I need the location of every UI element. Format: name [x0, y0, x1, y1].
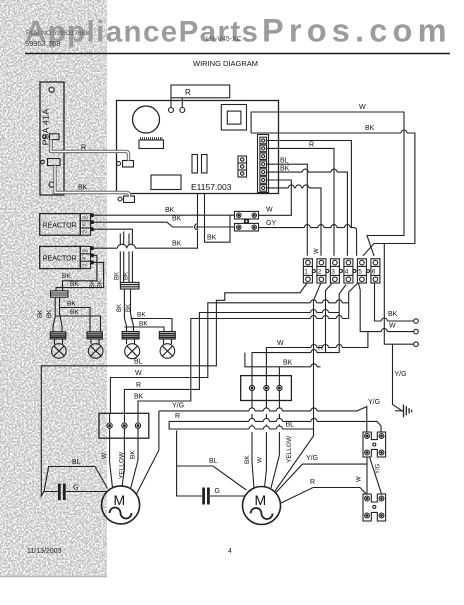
wire R into box2 pin1 from terminal 3 [252, 284, 332, 386]
relay block 2 [363, 493, 386, 521]
board right connector column [258, 135, 269, 193]
hops on W wire [311, 345, 342, 348]
svg-text:BK: BK [47, 310, 53, 318]
hops on BK staircase [311, 316, 343, 319]
hops on R wire [249, 418, 317, 421]
svg-text:Y/G: Y/G [172, 403, 184, 410]
wire T6 down to BK terminal [375, 283, 414, 321]
svg-text:BK: BK [98, 280, 104, 288]
capacitor motor2 [189, 488, 245, 505]
wire BK board bottom connector to hblock riser [205, 194, 231, 243]
hop on R wire [311, 350, 317, 353]
ribbon wire BK from PSA to board [55, 166, 130, 198]
wire BK reactor1 pin2 stepped [93, 222, 234, 227]
connector box 3pin motor2 [241, 376, 292, 401]
vertical B from T4 right [349, 283, 358, 318]
board buzzer circle [133, 106, 160, 133]
svg-text:YELLOW: YELLOW [119, 451, 126, 479]
svg-text:BK: BK [207, 235, 217, 242]
wire bar to lamp2 socket right [55, 316, 100, 332]
svg-text:WIRING DIAGRAM: WIRING DIAGRAM [193, 59, 258, 68]
board left connector 2 [118, 196, 135, 203]
wire BK reactor1 pin1 to connector block [93, 214, 234, 216]
wire GY from h-block across with hops [259, 228, 357, 256]
svg-text:BK: BK [124, 272, 130, 280]
wire BL motor1 [44, 467, 108, 492]
svg-text:5: 5 [358, 269, 362, 276]
staircase wire R to motor1 [124, 313, 339, 414]
wire from column box1 to terminal 4 [267, 141, 352, 228]
terminal circle YG [414, 342, 419, 347]
board capacitor bars [192, 155, 198, 174]
svg-text:G: G [73, 485, 78, 492]
svg-text:GN: GN [82, 215, 88, 220]
hop on box5 wire [302, 169, 337, 172]
wire bar to lamp2 socket left [60, 308, 91, 333]
header rule [25, 53, 450, 55]
svg-text:R: R [175, 413, 180, 420]
svg-text:W: W [82, 256, 86, 261]
staircase wire W to motor1 [110, 303, 348, 414]
svg-text:M: M [114, 492, 126, 508]
svg-text:G: G [215, 488, 220, 495]
svg-text:W: W [314, 248, 320, 254]
ground symbol [395, 405, 412, 418]
terminal circle BK [414, 319, 419, 324]
resistor box R on top of board [169, 85, 230, 113]
motor M2 [243, 487, 281, 525]
wire bar to lamp4 socket right [131, 319, 173, 332]
svg-text:BK: BK [139, 321, 148, 328]
reactor1 pin labels [82, 215, 88, 234]
svg-text:YELLOW: YELLOW [286, 435, 293, 463]
svg-text:BK: BK [62, 273, 71, 280]
wire pair line a [119, 234, 121, 283]
wire R from motor2 to relay2 [280, 488, 366, 504]
ribbon wire R from PSA to board [51, 140, 129, 161]
lamp socket 3 [122, 332, 139, 345]
svg-text:BK: BK [38, 310, 44, 318]
wire W loop from board top right [251, 112, 404, 256]
svg-text:PSA 41A: PSA 41A [41, 109, 51, 146]
svg-text:BK: BK [365, 125, 375, 132]
wire relay1 to relay2 crossing diagonal [370, 457, 382, 494]
svg-text:R: R [81, 145, 86, 152]
svg-text:Y/G: Y/G [368, 399, 380, 406]
wire R from left to relay1 [169, 421, 381, 431]
svg-text:BK: BK [244, 455, 251, 464]
hop where vertical crosses BK wire [195, 224, 198, 230]
svg-text:W: W [135, 370, 142, 377]
hops on W staircase [311, 300, 343, 303]
terminal circle W [414, 329, 419, 334]
wire pair line b [128, 234, 130, 283]
reactor 2 [40, 246, 93, 268]
svg-text:BK: BK [126, 304, 132, 312]
wire YG vertical from BK loop corner to YG terminal [384, 244, 413, 345]
terminal strip units 1-6 [303, 259, 380, 283]
board square component [221, 105, 246, 131]
svg-text:W: W [389, 323, 396, 330]
svg-text:BK: BK [67, 301, 76, 308]
svg-text:BK: BK [117, 304, 123, 312]
svg-text:Y/G: Y/G [395, 371, 407, 378]
svg-text:W: W [82, 222, 86, 227]
staircase wire T1 to BL [41, 283, 307, 496]
svg-text:BK: BK [78, 185, 88, 192]
lamp L3 [125, 344, 140, 359]
PSA-41A board [40, 82, 64, 195]
svg-text:Y/G: Y/G [306, 455, 318, 462]
wire W from column box6 down to h-block [259, 180, 292, 215]
hops on BL2 wire [249, 426, 283, 429]
wire terminal2 down to motor2 BL [275, 283, 321, 491]
svg-text:W: W [277, 340, 284, 347]
wire YG terminal to ground [393, 344, 403, 411]
wire BL motor2 [177, 431, 247, 497]
svg-text:R: R [318, 345, 323, 352]
wire reactor2 pin2 hook to lamp1 bar [63, 255, 97, 291]
svg-text:Y/G: Y/G [376, 463, 382, 474]
svg-text:3: 3 [331, 269, 335, 276]
svg-text:E1157.003: E1157.003 [191, 182, 232, 192]
svg-text:REACTOR: REACTOR [43, 223, 77, 230]
lamp socket 2 [87, 332, 103, 344]
reactor2 pin labels [82, 248, 88, 268]
lamp3 terminal bar [120, 282, 139, 289]
svg-text:W: W [101, 452, 108, 459]
svg-text:BK: BK [130, 450, 137, 459]
reactor 1 [40, 214, 93, 236]
svg-text:R: R [309, 142, 314, 149]
svg-text:BL: BL [134, 359, 143, 366]
svg-text:BK: BK [137, 312, 146, 319]
svg-text:PUB NO 5995317688: PUB NO 5995317688 [26, 30, 89, 37]
wire W into box2 pin2 [266, 332, 368, 386]
svg-text:59953.768: 59953.768 [25, 39, 60, 48]
svg-text:4: 4 [228, 548, 232, 555]
wires lamp1 bar down to sockets [53, 297, 62, 332]
wire T5 down to W terminal [359, 284, 414, 332]
svg-text:BL: BL [286, 422, 295, 429]
svg-text:BK: BK [280, 166, 290, 173]
hops on R staircase [311, 310, 329, 313]
svg-text:BK: BK [70, 309, 79, 316]
hops on GY wire [304, 225, 350, 228]
board 3-pin connector [238, 156, 247, 177]
svg-text:1: 1 [304, 269, 308, 276]
board relay rect [151, 175, 181, 190]
svg-text:BK: BK [165, 207, 175, 214]
wire BL from column box4 to terminal 1 [267, 164, 308, 256]
wire Y/G from motor2 to relay1 bottom [276, 464, 367, 492]
svg-text:BL: BL [209, 458, 218, 465]
wire reactor1 pin3 down to lamp bar [93, 229, 132, 282]
hop W wire over YG vertical [381, 329, 387, 332]
svg-text:6: 6 [372, 269, 376, 276]
svg-text:BK: BK [90, 280, 96, 288]
wire BL2 branch [169, 421, 313, 429]
svg-text:2V: 2V [82, 263, 87, 268]
board IC chip [139, 137, 164, 149]
hop BK over W vertical [401, 130, 407, 133]
lamp L4 [160, 344, 175, 359]
connector box 3pin motor1 [99, 413, 149, 438]
svg-text:M: M [255, 492, 267, 508]
connector h-block W GY [235, 211, 259, 231]
svg-text:BK: BK [388, 311, 398, 318]
svg-text:2V: 2V [82, 229, 87, 234]
wire vertical pair to lamp bar 2 [123, 232, 125, 283]
hop BK wire over YG vertical [381, 318, 387, 321]
staircase wire BK to motor1 [138, 319, 349, 414]
svg-text:BK: BK [115, 272, 121, 280]
svg-text:LH-V45-XC: LH-V45-XC [206, 36, 242, 43]
wire W vertical relay1 bottom to relay2 top [366, 457, 368, 494]
capacitor motor1 [44, 484, 108, 501]
svg-text:R: R [185, 88, 191, 97]
svg-text:BK: BK [283, 360, 293, 367]
svg-text:W: W [266, 207, 273, 214]
hops on Y/G wire [249, 408, 317, 411]
svg-text:BK: BK [70, 281, 79, 288]
svg-text:W: W [359, 104, 366, 111]
vertical A from T4 to R wire [332, 285, 347, 353]
svg-text:GY: GY [266, 220, 276, 227]
svg-text:GN: GN [82, 248, 88, 253]
lamp L1 [52, 344, 67, 359]
scan noise strip [0, 0, 107, 577]
svg-text:11/13/2003: 11/13/2003 [27, 548, 62, 555]
control board outline [117, 101, 279, 194]
svg-text:R: R [310, 479, 315, 486]
lamp1 terminal bar [51, 291, 69, 297]
wires lamp3 bar down [124, 289, 133, 332]
wires through box2 to motor2 [252, 391, 254, 489]
wire BK into box2 pin3 [245, 353, 321, 386]
wire BK loop from board top right [251, 133, 415, 256]
svg-text:REACTOR: REACTOR [43, 256, 77, 263]
wire BK from column box5 [267, 172, 348, 256]
svg-text:BK: BK [134, 394, 144, 401]
svg-text:BL: BL [72, 459, 81, 466]
svg-text:W: W [257, 456, 264, 463]
svg-text:4: 4 [345, 269, 349, 276]
lamp L2 [88, 344, 103, 359]
wire BK reactor2 pin1 right and up [93, 194, 197, 249]
svg-text:BK: BK [172, 216, 182, 223]
hops on reactor2 pin1 wire [117, 244, 135, 248]
wire bar to lamp4 socket left [124, 327, 164, 332]
svg-text:2: 2 [318, 269, 322, 276]
relay block 1 [363, 431, 386, 457]
board left connector 1 [117, 161, 134, 168]
lamp socket 1 [50, 332, 66, 344]
motor M1 [102, 486, 140, 524]
wires through box1 to motor1 [110, 413, 113, 488]
hops on box7 wire [288, 185, 309, 188]
wire R from column box2 to terminal 3 [267, 148, 335, 255]
svg-text:BK: BK [172, 241, 182, 248]
wire Y/G from left to relay1 [159, 407, 367, 432]
wire reactor2 pin3 hook to lamp1 bar [56, 262, 104, 291]
svg-text:BL: BL [280, 158, 289, 165]
wire from column box7 to terminal 2 [267, 188, 322, 256]
svg-text:Pros.com: Pros.com [262, 13, 452, 49]
terminal numbers 1-6 [304, 269, 376, 276]
svg-text:W: W [357, 476, 363, 482]
lamp socket 4 [159, 332, 175, 345]
svg-text:R: R [136, 382, 141, 389]
wire Y/G drop to motor1 [137, 411, 159, 494]
